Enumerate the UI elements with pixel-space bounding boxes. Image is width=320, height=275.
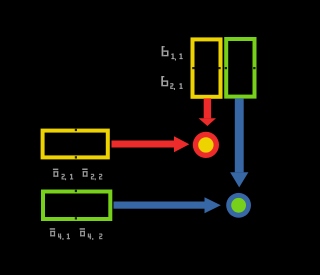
- cell divider tick, yellow column right edge: [218, 67, 220, 69]
- product dot c 4,2 (blue ring, green center): [226, 193, 251, 218]
- cell divider tick, green row bottom edge: [75, 217, 77, 219]
- red vertical arrow from yellow column to product dot: [199, 98, 217, 126]
- cell divider tick, green column left edge: [225, 67, 227, 69]
- product dot c 2,1 (red ring, yellow center): [193, 132, 219, 158]
- matrix A row 2 highlight (yellow horizontal rectangle): [43, 131, 108, 158]
- cell divider tick, green row top edge: [75, 190, 77, 192]
- cell divider tick, yellow row top edge: [75, 129, 77, 131]
- cell divider tick, green column right edge: [253, 67, 255, 69]
- matrix B column 1 highlight (yellow vertical rectangle): [193, 39, 221, 96]
- matrix B column 2 highlight (green vertical rectangle): [226, 39, 254, 97]
- label a 2,2: [82, 169, 102, 181]
- matrix A row 4 highlight (green horizontal rectangle): [43, 192, 110, 220]
- blue horizontal arrow from green row to product dot: [114, 197, 221, 213]
- cell divider tick, yellow row bottom edge: [75, 156, 77, 158]
- cell divider tick, yellow column left edge: [192, 67, 194, 69]
- label a 2,1: [53, 169, 73, 181]
- label b 1,1: [162, 46, 183, 61]
- label a 4,2: [80, 228, 103, 240]
- label b 2,1: [161, 76, 182, 90]
- blue vertical arrow from green column to product dot: [230, 98, 248, 187]
- red horizontal arrow from yellow row to product dot: [112, 136, 190, 152]
- label a 4,1: [50, 228, 70, 240]
